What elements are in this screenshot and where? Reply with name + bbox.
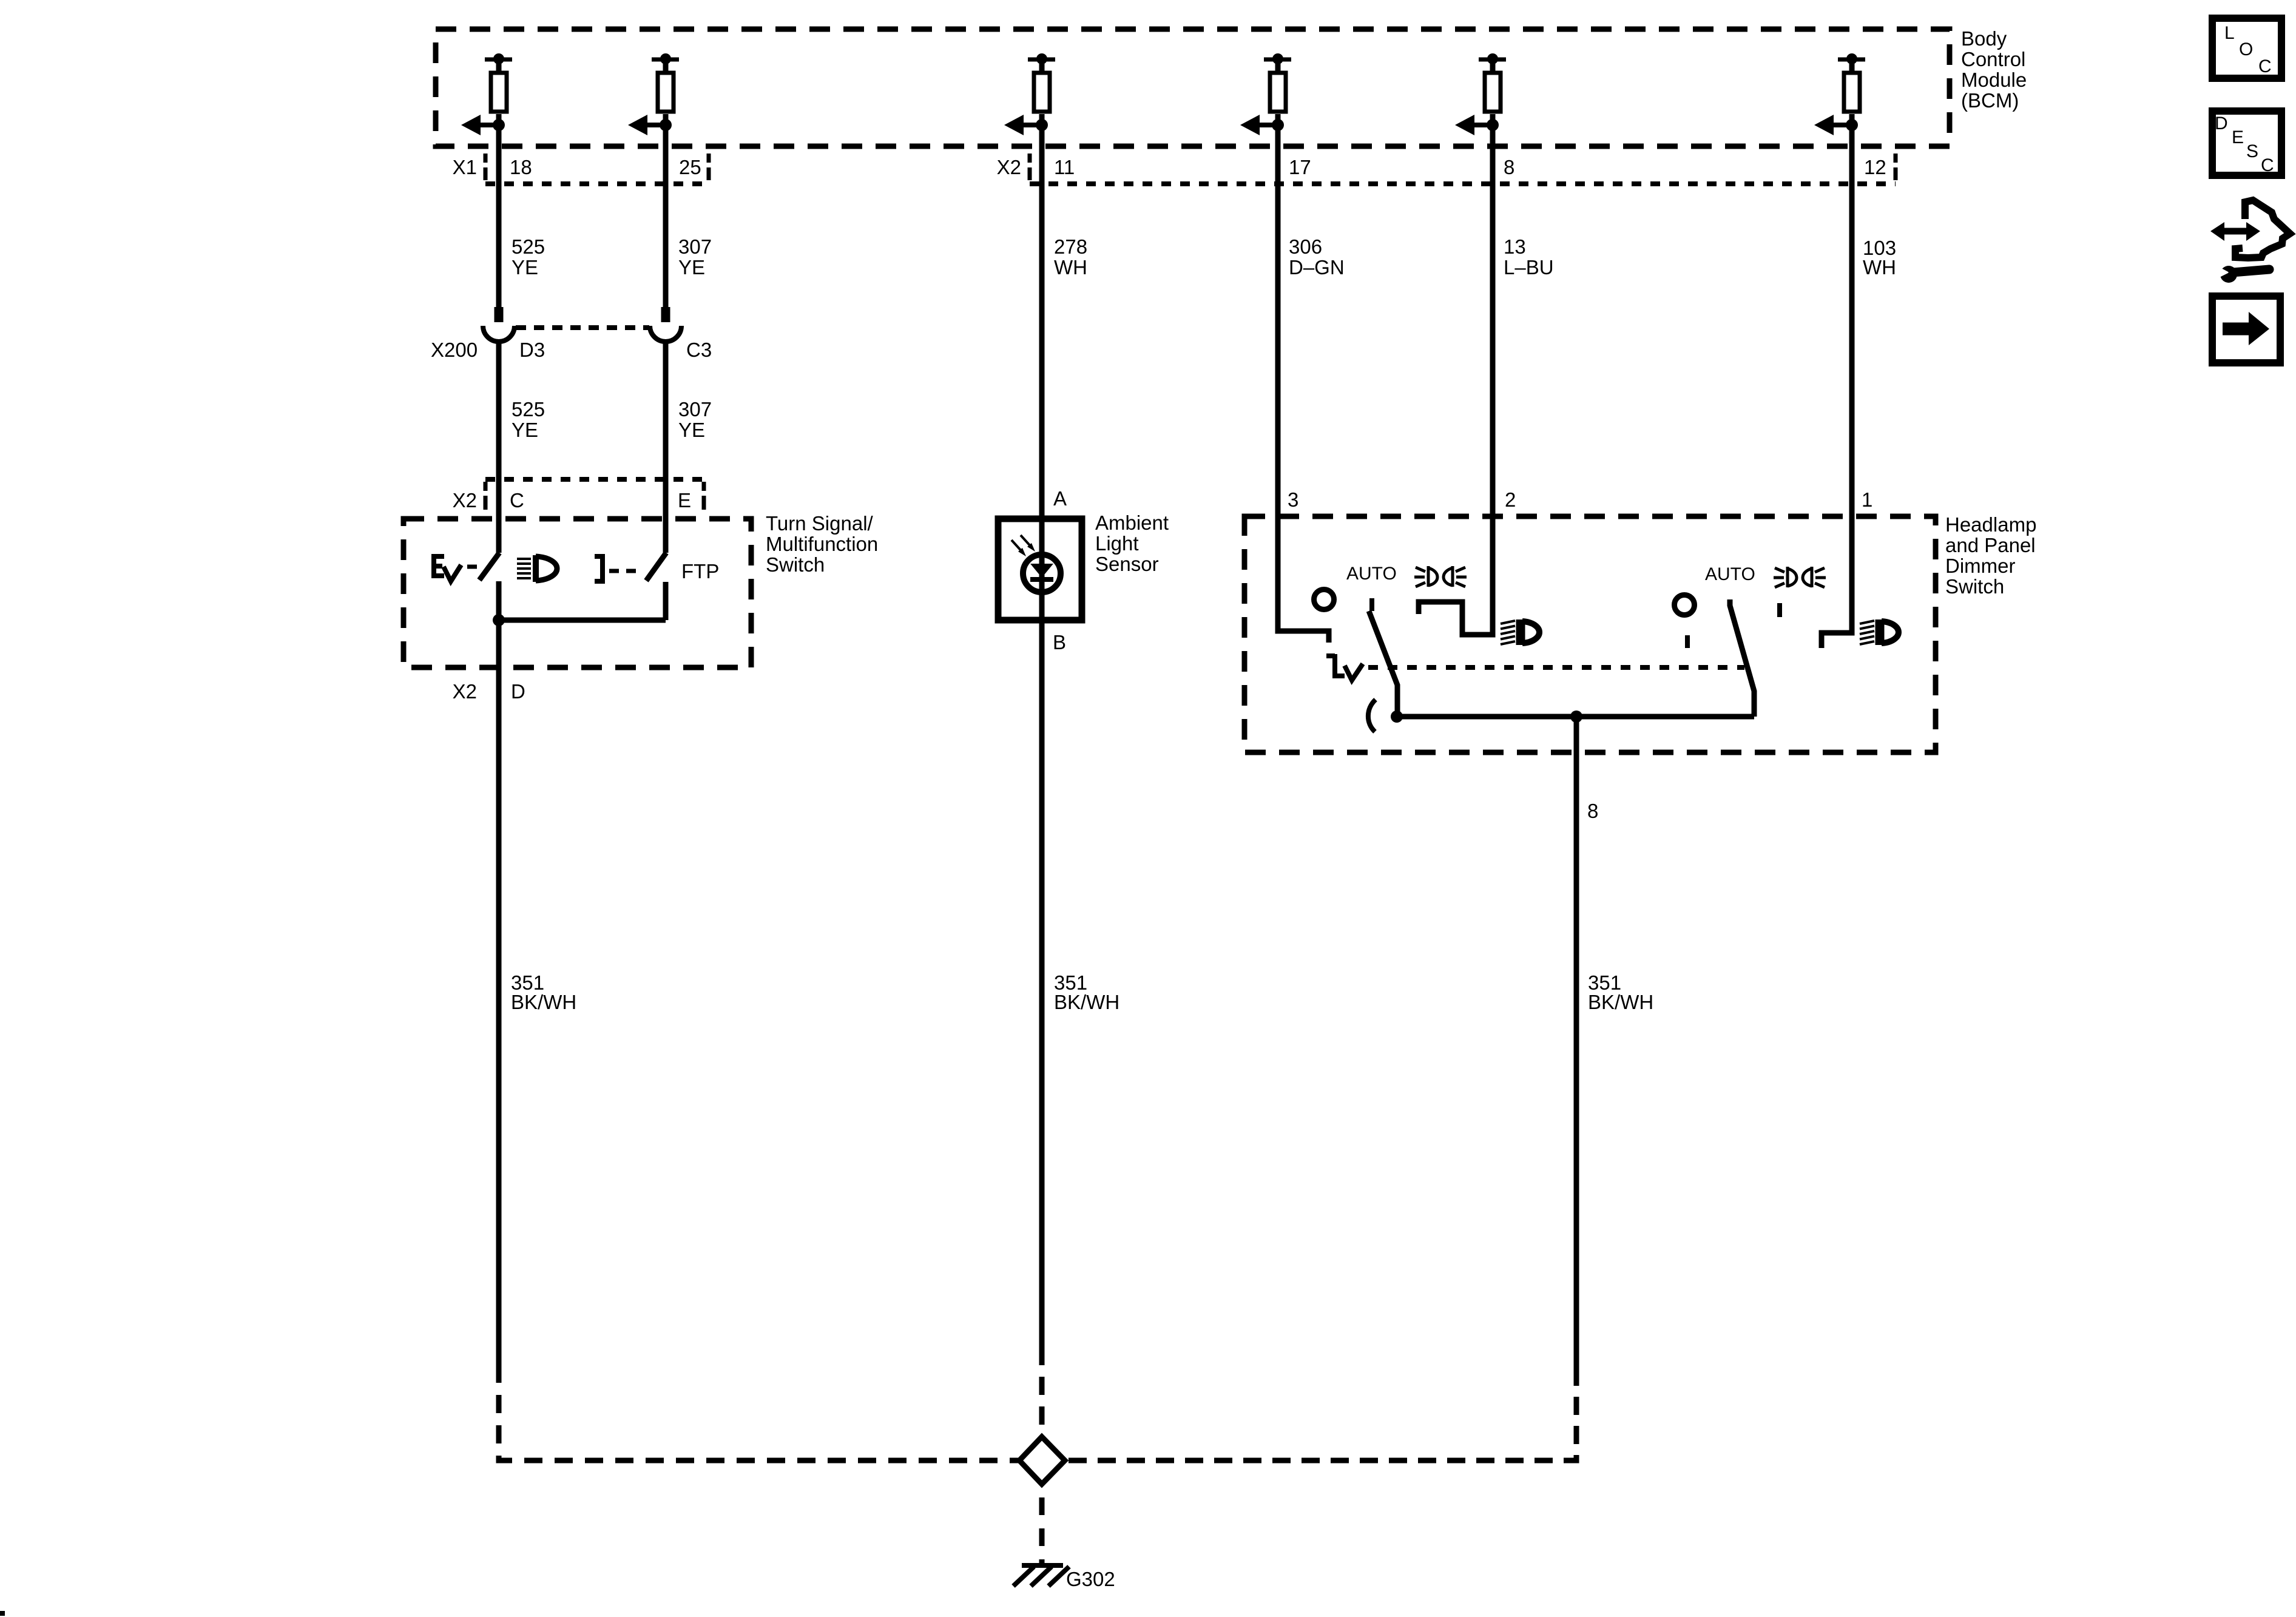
svg-text:Multifunction: Multifunction: [766, 533, 878, 555]
junction dot (pin 8 takeoff): [1570, 711, 1582, 723]
turn signal lever symbol E: [434, 556, 444, 576]
svg-text:Ambient: Ambient: [1095, 511, 1169, 534]
svg-text:YE: YE: [678, 256, 705, 279]
svg-text:Turn Signal/: Turn Signal/: [766, 512, 874, 535]
svg-text:307: 307: [678, 398, 712, 420]
svg-text:AUTO: AUTO: [1346, 564, 1397, 584]
svg-text:Module: Module: [1961, 69, 2027, 91]
svg-text:C3: C3: [686, 339, 712, 361]
wire 278 WH: [1039, 125, 1045, 1365]
dashed stub to ground: [1039, 1484, 1045, 1564]
svg-text:17: 17: [1289, 156, 1311, 178]
svg-text:WH: WH: [1054, 256, 1087, 279]
photodiode cathode bar: [1030, 577, 1053, 582]
svg-text:B: B: [1053, 631, 1066, 653]
svg-text:2: 2: [1505, 488, 1516, 511]
BCM driver pin X2-12: [1814, 53, 1865, 135]
BCM driver pin X1-25: [628, 53, 679, 135]
switch blade (right): [1730, 599, 1754, 717]
svg-text:13: 13: [1504, 235, 1526, 258]
svg-text:Light: Light: [1095, 532, 1139, 555]
svg-text:X2: X2: [453, 680, 477, 703]
svg-text:D–GN: D–GN: [1289, 256, 1345, 279]
turn signal switch blade: [479, 553, 499, 580]
harness repair legend icon: [2210, 200, 2290, 283]
svg-text:Sensor: Sensor: [1095, 553, 1159, 575]
BCM driver pin X2-17: [1240, 53, 1291, 135]
svg-text:FTP: FTP: [681, 560, 719, 582]
BCM connector X1 dotted outline: [485, 154, 709, 184]
svg-text:25: 25: [679, 156, 701, 178]
svg-text:BK/WH: BK/WH: [1054, 991, 1119, 1013]
svg-text:YE: YE: [512, 419, 538, 441]
svg-text:BK/WH: BK/WH: [1588, 991, 1653, 1013]
dimmer lever symbol bracket (left): [1326, 654, 1345, 676]
svg-text:S: S: [2246, 141, 2258, 161]
BCM driver pin X2-11: [1004, 53, 1055, 135]
dashed ground run (dimmer wire): [1065, 1386, 1576, 1460]
ground symbol G302: [1013, 1565, 1069, 1586]
DESC legend icon: [2212, 111, 2281, 175]
svg-text:X2: X2: [453, 489, 477, 511]
BCM driver pin X2-8: [1455, 53, 1506, 135]
dimmer lever symbol v (left): [1345, 664, 1363, 680]
arrow legend icon: [2212, 296, 2280, 363]
turn signal switch dash: [467, 565, 477, 569]
FTP switch blade: [646, 553, 666, 581]
wire 307 YE upper segment: [663, 125, 669, 307]
wiper pivot arc: [1368, 700, 1376, 732]
svg-text:Switch: Switch: [766, 553, 825, 576]
svg-text:1: 1: [1862, 488, 1872, 511]
svg-text:G302: G302: [1066, 1568, 1115, 1590]
OFF contact stub (right): [1685, 635, 1690, 648]
FTP dashes: [609, 569, 636, 573]
svg-text:Control: Control: [1961, 48, 2025, 70]
svg-text:L–BU: L–BU: [1504, 256, 1554, 279]
svg-text:(BCM): (BCM): [1961, 89, 2019, 112]
X200 connector terminal C3: [650, 307, 681, 342]
svg-text:278: 278: [1054, 235, 1087, 258]
svg-text:O: O: [2239, 39, 2253, 59]
svg-text:306: 306: [1289, 235, 1322, 258]
svg-text:Dimmer: Dimmer: [1945, 555, 2015, 577]
Turn Signal/Multifunction Switch dashed box: [403, 519, 751, 667]
turn signal switch connector X2 dotted outline: [485, 479, 704, 510]
BCM module dashed box: [436, 29, 1950, 146]
turn signal lever symbol v: [444, 565, 461, 581]
svg-text:525: 525: [512, 235, 545, 258]
svg-text:YE: YE: [512, 256, 538, 279]
svg-text:X2: X2: [997, 156, 1021, 178]
OFF position circle (left): [1314, 590, 1334, 610]
svg-text:YE: YE: [678, 419, 705, 441]
svg-text:AUTO: AUTO: [1705, 564, 1755, 584]
FTP lower stub: [663, 582, 669, 620]
headlamp symbol (right): [1860, 619, 1899, 645]
svg-text:BK/WH: BK/WH: [511, 991, 576, 1013]
svg-text:8: 8: [1504, 156, 1514, 178]
light arrow 2: [1021, 535, 1035, 552]
svg-text:L: L: [2224, 23, 2235, 43]
light arrow 1: [1011, 540, 1026, 556]
svg-text:C: C: [2261, 155, 2274, 175]
headlamp symbol (turn signal switch): [517, 555, 557, 582]
svg-text:D: D: [511, 680, 525, 703]
photodiode triangle: [1030, 564, 1053, 578]
dashed ground run (left wire): [499, 1383, 1019, 1460]
svg-text:3: 3: [1288, 488, 1298, 511]
wire 351 BK/WH from dimmer: [1574, 717, 1579, 1386]
X200 connector terminal D3: [483, 307, 515, 342]
Ambient Light Sensor box: [998, 519, 1082, 620]
page artifact dot: [0, 1611, 5, 1616]
svg-text:D: D: [2215, 113, 2228, 133]
svg-text:525: 525: [512, 398, 545, 420]
parking contact stub (right): [1777, 603, 1782, 617]
dimmer internal dashed link: [1368, 665, 1744, 670]
svg-text:A: A: [1053, 487, 1067, 510]
wire 13 L-BU: [1419, 125, 1493, 635]
switch blade (left): [1369, 611, 1397, 717]
svg-text:Headlamp: Headlamp: [1945, 513, 2036, 536]
svg-text:WH: WH: [1863, 256, 1896, 279]
splice diamond: [1019, 1437, 1065, 1484]
AUTO contact stub (left): [1369, 598, 1374, 611]
X200 connector dashed line: [516, 325, 649, 330]
junction dot (wiper output): [1391, 711, 1403, 723]
wire 525 YE upper segment: [496, 125, 502, 307]
svg-text:18: 18: [510, 156, 532, 178]
svg-text:E: E: [2232, 127, 2244, 147]
wire 307 YE lower segment: [663, 343, 669, 553]
wire 103 WH: [1822, 125, 1852, 648]
svg-text:and Panel: and Panel: [1945, 534, 2036, 556]
dashed ground run (sensor wire): [1039, 1365, 1045, 1436]
OFF position circle (right): [1675, 595, 1695, 615]
LOC legend icon: [2212, 18, 2281, 78]
BCM connector X2 dotted outline: [1030, 154, 1896, 184]
wire 306 D-GN: [1278, 125, 1329, 643]
parking lamps symbol (left): [1414, 566, 1467, 587]
svg-text:C: C: [510, 489, 524, 511]
wire 525 YE lower segment: [496, 343, 502, 553]
svg-text:8: 8: [1587, 800, 1598, 822]
svg-text:C: C: [2258, 56, 2272, 76]
svg-text:307: 307: [678, 235, 712, 258]
svg-text:11: 11: [1054, 156, 1075, 178]
svg-text:D3: D3: [519, 339, 545, 361]
svg-text:Switch: Switch: [1945, 575, 2004, 598]
svg-text:X200: X200: [431, 339, 478, 361]
svg-text:E: E: [678, 489, 691, 511]
Headlamp and Panel Dimmer Switch dashed box: [1244, 516, 1936, 752]
parking lamps symbol (right): [1774, 567, 1826, 587]
svg-text:X1: X1: [453, 156, 477, 178]
BCM driver pin X1-18: [461, 53, 512, 135]
svg-text:12: 12: [1864, 156, 1886, 178]
wire below turn signal blade: [496, 581, 502, 1383]
svg-text:Body: Body: [1961, 27, 2007, 50]
headlamp symbol (left): [1501, 619, 1539, 645]
FTP bracket symbol: [595, 556, 603, 581]
junction dot (turn signal switch): [493, 614, 505, 626]
switch internal link wire: [499, 618, 666, 623]
dimmer output bus wire: [1397, 714, 1754, 720]
photodiode circle: [1023, 555, 1061, 592]
